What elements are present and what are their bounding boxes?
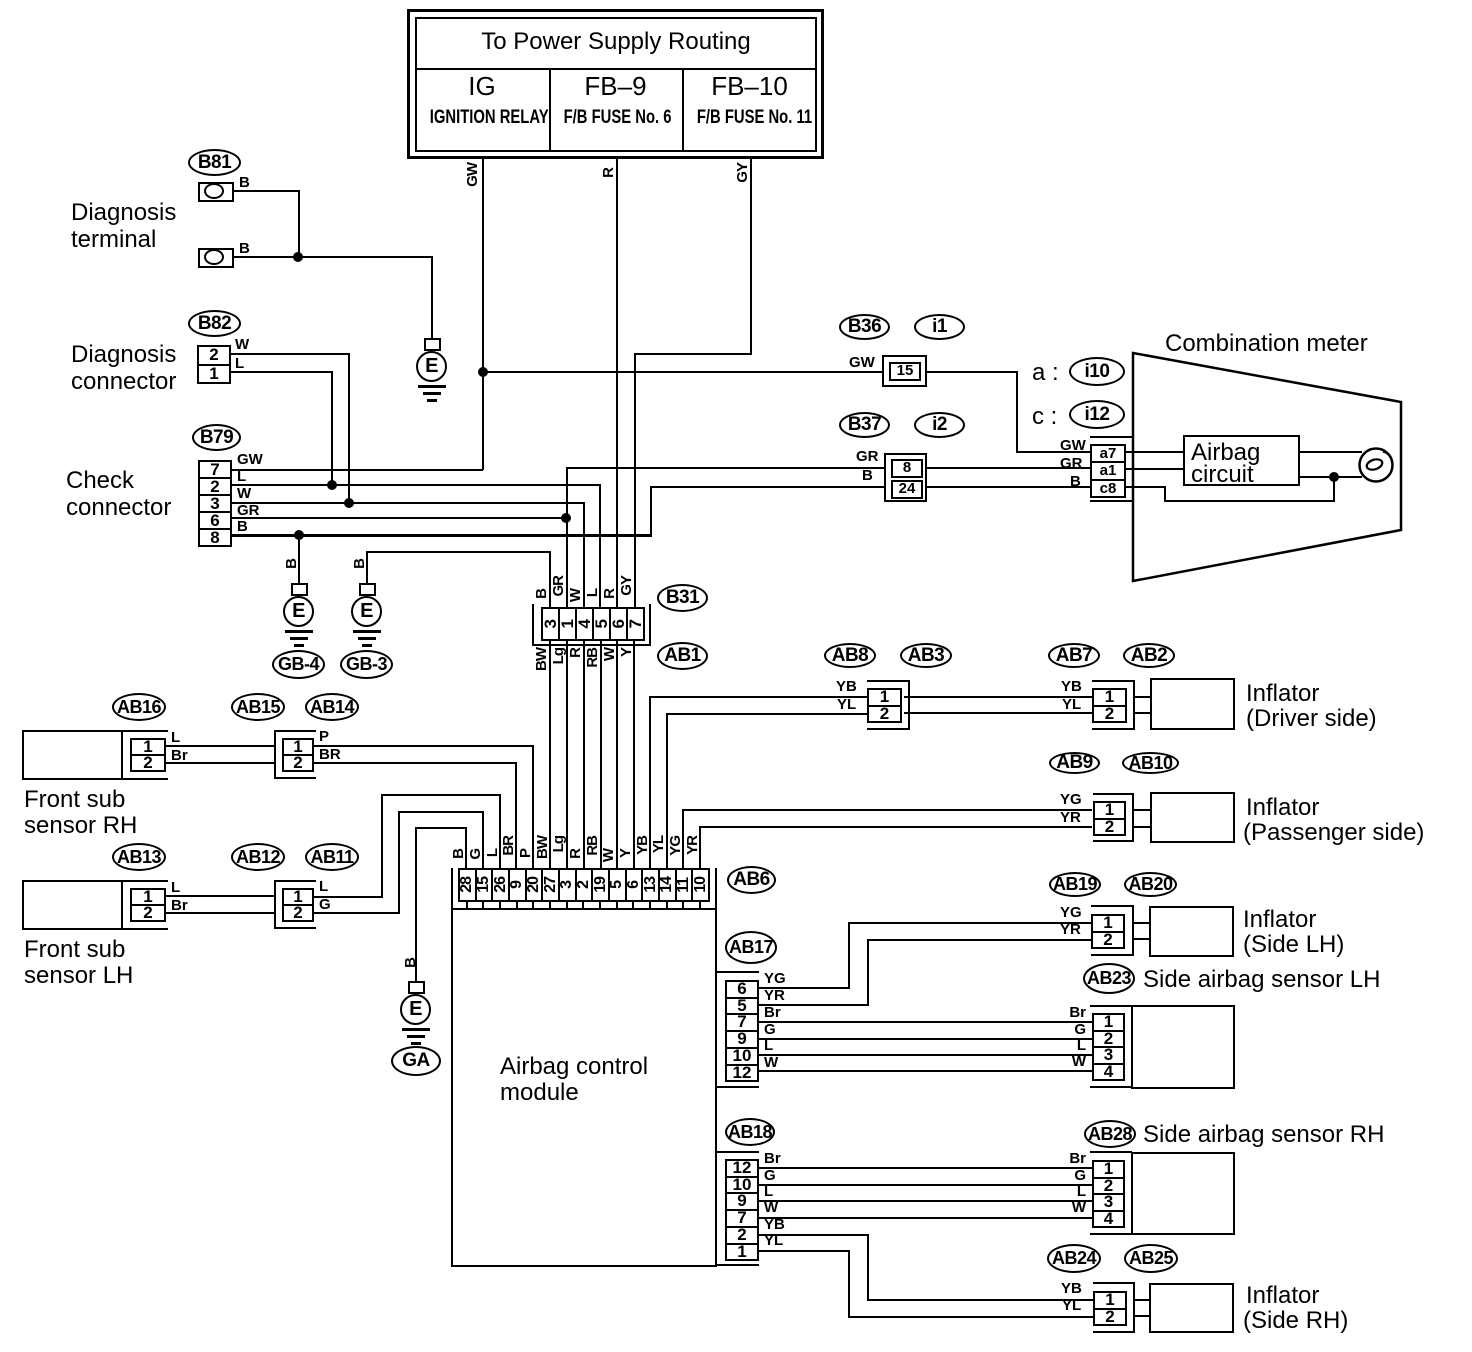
label W wire B82 (235, 337, 249, 353)
wire GW from IG down to check connector (482, 159, 484, 470)
connector AB19/AB20 bracket (1091, 905, 1134, 907)
ground E diagnosis (424, 338, 441, 351)
label Front sub sensor RH (24, 787, 125, 813)
connector AB6 oval (727, 866, 776, 894)
wire R from FB-9 down to B31 pin 6 (616, 159, 618, 607)
connector AB9/AB10 cells (1093, 801, 1126, 836)
label Check connector (66, 468, 134, 494)
wire AB9 pin2 to inflator (1134, 826, 1150, 828)
label G wire AB11 (319, 897, 331, 913)
wire YB module pin13 to AB8 (649, 697, 651, 868)
junction B wire to GB-4 (294, 530, 304, 540)
connector B37 pins 8/24 (884, 453, 927, 502)
label GY power wire (734, 163, 751, 183)
connector AB2 oval (1123, 643, 1175, 668)
label YB wire AB24 (1061, 1281, 1082, 1297)
junction L wires (327, 480, 337, 490)
wire L AB18-9 to AB28 (759, 1200, 1092, 1202)
label B wire GA (402, 958, 419, 968)
label GR wire B79 pin6 (237, 503, 260, 519)
junction GR wires (561, 513, 571, 523)
wire Br AB18-12 to AB28 (759, 1167, 1092, 1169)
label YL wire AB8 (837, 697, 856, 713)
inflator side RH box (1149, 1283, 1234, 1333)
connector AB28 oval (1084, 1120, 1136, 1148)
connector AB8 oval (824, 643, 876, 668)
connector a7/a1/c8 cells (1090, 444, 1126, 498)
label W wire AB28 (1062, 1200, 1086, 1216)
front sub sensor LH box (22, 880, 123, 930)
wire airbag circuit to lamp bottom with c8 return (1300, 476, 1362, 478)
wire a1 to airbag circuit (1126, 468, 1183, 470)
label B wire c8 (1070, 474, 1081, 490)
wire AB19 pin1 to inflator (1134, 922, 1149, 924)
label YR wire AB19 (1060, 922, 1081, 938)
label YB wire AB18-2 (764, 1217, 785, 1233)
label Front sub sensor LH (24, 937, 125, 963)
label YR wire AB17-5 (764, 988, 785, 1004)
label W wire AB17-12 (764, 1055, 778, 1071)
wire YG AB17-6 to AB19 (759, 987, 850, 989)
airbag circuit box (1183, 435, 1300, 486)
ground GB-4 (283, 559, 300, 569)
label L wire AB16 (171, 730, 180, 746)
ground GA oval (391, 1046, 441, 1076)
diagnosis terminal pin 2 (198, 248, 234, 268)
connector B31 oval (657, 584, 708, 612)
label L wire AB28 (1062, 1184, 1086, 1200)
wire AB13 pin2 to AB12 (166, 912, 276, 914)
label GW wire B79 pin7 (237, 452, 263, 468)
connector AB18 cells (725, 1159, 759, 1261)
inflator side LH box (1149, 906, 1234, 957)
wire YB AB18-2 to AB24 (759, 1234, 869, 1236)
wire AB7 pin2 to inflator (1135, 712, 1151, 714)
connector AB9/AB10 bracket (1093, 793, 1134, 795)
label Airbag control module (500, 1054, 648, 1080)
wire AB24 pin1 to inflator (1135, 1299, 1149, 1301)
label GW wire B36 (849, 355, 875, 371)
wire G module pin15 to AB11 (482, 811, 484, 868)
connector AB8/AB3 bracket (867, 680, 910, 682)
wire W check pin3 to B31 pin4 (232, 502, 584, 504)
label Br wire AB13 (171, 898, 188, 914)
label YL wire AB7 (1062, 697, 1081, 713)
wire AB16 pin1 to AB15 (166, 745, 276, 747)
combination meter trapezoid outline (1130, 350, 1406, 586)
label W wire AB18-7 (764, 1200, 778, 1216)
wire W AB18-7 to AB28 (759, 1217, 1092, 1219)
label Inflator Side RH (1246, 1283, 1319, 1309)
wire AB3 to AB7 YB (904, 696, 1092, 698)
connector AB18 oval (725, 1118, 775, 1146)
label B wire terminal2 (239, 241, 250, 257)
label YL wire AB18-1 (764, 1233, 783, 1249)
connector AB28 cells (1092, 1160, 1125, 1228)
AB6 pin ticks (466, 900, 468, 910)
connector AB25 oval (1124, 1244, 1178, 1273)
connector AB19/AB20 cells (1091, 914, 1125, 949)
connector AB13 oval (112, 843, 166, 871)
label a : i10 (1032, 360, 1059, 386)
label GW power wire (464, 163, 481, 187)
label Inflator Driver side (1246, 681, 1319, 707)
label L wire AB23 (1062, 1038, 1086, 1054)
diagnosis terminal pin 1 (198, 182, 234, 202)
lamp airbag warning (1355, 444, 1401, 488)
connector AB15 oval (231, 693, 285, 721)
label Diagnosis connector (71, 342, 176, 368)
connector B79 (198, 460, 232, 547)
connector B82 (197, 345, 231, 384)
junction W wires (344, 498, 354, 508)
connector AB17 bracket (717, 971, 759, 973)
connector AB17 cells (725, 980, 759, 1082)
wire G AB17-9 to AB23 (759, 1038, 1092, 1040)
ground GB-4 oval (272, 650, 325, 679)
label GR wire B37 (856, 449, 879, 465)
connector AB1 oval (657, 642, 708, 670)
wire GW check pin7 to power GW line (232, 469, 483, 471)
wire YR AB17-5 to AB19 (759, 1004, 869, 1006)
connector AB16 cells (130, 738, 166, 772)
wire AB13 pin1 to AB12 (166, 895, 276, 897)
wire B37-8 to meter a1 (927, 467, 1090, 469)
connector AB8/AB3 cells (867, 688, 902, 723)
wire W AB17-12 to AB23 (759, 1070, 1092, 1072)
label G wire AB17-9 (764, 1022, 776, 1038)
connector B36 oval (839, 314, 890, 340)
ground GB-3 (359, 583, 376, 596)
wire YL module pin14 to AB8 (666, 714, 668, 868)
label GR wire a1 (1060, 456, 1083, 472)
label Side airbag sensor RH (1143, 1122, 1384, 1148)
connector AB20 oval (1124, 872, 1177, 897)
connector AB14 oval (305, 693, 359, 721)
connector B79 oval (192, 424, 241, 451)
side airbag sensor RH box (1131, 1152, 1235, 1235)
wire P module pin20 to AB14 (532, 746, 534, 868)
connector AB7 oval (1048, 643, 1100, 668)
label c : i12 (1032, 404, 1057, 430)
wire GR check pin6 to B37 pin8 and B31 pin1 (232, 517, 567, 519)
wire GW junction to B36 (483, 371, 882, 373)
ground GB-3 wire to B31 pin3 (351, 559, 368, 569)
label Br wire AB28 (1062, 1151, 1086, 1167)
label R power wire (600, 168, 617, 178)
label L wire AB17-10 (764, 1038, 773, 1054)
connector AB17 oval (725, 931, 777, 964)
label L wire B79 pin2 (237, 469, 246, 485)
label W wire B79 pin3 (237, 486, 251, 502)
front sub sensor RH box (22, 730, 123, 780)
wire YG module pin11 to AB9 (682, 810, 684, 868)
label GW wire a7 (1060, 438, 1086, 454)
inflator passenger side box (1150, 792, 1235, 843)
label G wire AB23 (1062, 1022, 1086, 1038)
wire AB16 pin2 to AB15 (166, 762, 276, 764)
label Br wire AB17-7 (764, 1005, 781, 1021)
junction diagnosis terminal wires (293, 252, 303, 262)
label Inflator Passenger side (1246, 795, 1319, 821)
label Combination meter (1165, 331, 1368, 357)
label B wire B79 pin8 (237, 519, 248, 535)
connector i2 oval (914, 412, 965, 438)
ground GB-3 oval (340, 650, 393, 679)
connector i1 oval (914, 314, 965, 340)
connector AB15 bracket (274, 730, 316, 732)
wire BR module pin9 to AB14 (515, 763, 517, 868)
junction GW line to B36 (478, 367, 488, 377)
wire terminal2 to ground E (234, 256, 432, 258)
connector B36 pin 15 (882, 355, 927, 387)
label Br wire AB23 (1062, 1005, 1086, 1021)
connector AB16 oval (112, 693, 166, 721)
wire Br AB17-7 to AB23 (759, 1021, 1092, 1023)
wire B37-24 to meter c8 (927, 486, 1090, 488)
wire L from B82 pin1 to check connector L (231, 371, 333, 373)
labels B31 top wires (533, 589, 550, 599)
label G wire AB18-10 (764, 1168, 776, 1184)
wires B31 to airbag control module connector (549, 641, 551, 868)
label B wire B37 (862, 468, 873, 484)
connector AB15/AB14 cells (282, 738, 314, 772)
connector AB23 cells (1092, 1013, 1125, 1081)
wire B check pin8 to ground GB-4 and B37 pin24 (232, 534, 652, 537)
label BR wire AB14 (319, 747, 341, 763)
ground GA (408, 981, 425, 994)
labels AB1 bottom wires (533, 648, 550, 671)
connector B81 oval (188, 149, 241, 176)
connector B31/AB1 cells (541, 607, 645, 641)
connector i10 oval (1069, 357, 1125, 386)
label G wire AB28 (1062, 1168, 1086, 1184)
label B wire terminal1 (239, 175, 250, 191)
label W wire AB23 (1062, 1054, 1086, 1070)
connector AB24/AB25 bracket (1093, 1282, 1135, 1284)
label Diagnosis terminal (71, 200, 176, 226)
wire G AB18-10 to AB28 (759, 1184, 1092, 1186)
label L wire AB11 (319, 879, 328, 895)
connector B31/AB1 bracket (532, 604, 534, 646)
wire W from B82 pin2 to check connector W (231, 353, 350, 355)
wire airbag circuit to lamp top (1300, 451, 1362, 453)
label Br wire AB16 (171, 748, 188, 764)
connector AB12/AB11 cells (282, 888, 314, 922)
connector AB23 oval (1083, 963, 1135, 994)
connector AB13 cells (130, 888, 166, 922)
inflator driver side box (1150, 678, 1235, 730)
wire AB24 pin2 to inflator (1135, 1315, 1149, 1317)
connector AB6 cells (458, 868, 710, 902)
labels AB6 wires (450, 849, 467, 859)
wire AB9 pin1 to inflator (1134, 809, 1150, 811)
power supply routing box (407, 9, 824, 159)
wire L check pin2 to B31 pin5 (232, 484, 600, 486)
wire YL AB18-1 to AB24 (759, 1250, 850, 1252)
connector AB23 bracket (1090, 1005, 1132, 1007)
connector AB24 oval (1047, 1244, 1101, 1273)
connector AB10 oval (1122, 752, 1179, 774)
connector AB12 oval (231, 843, 285, 871)
airbag control module box (451, 908, 717, 1267)
label Side airbag sensor LH (1143, 967, 1380, 993)
connector B37 oval (839, 412, 890, 438)
connector AB12 bracket (274, 880, 316, 882)
wire AB3 to AB7 YL (904, 712, 1092, 714)
wire AB19 pin2 to inflator (1134, 938, 1149, 940)
label YG wire AB9 (1060, 792, 1082, 808)
connector AB7/AB2 bracket (1092, 680, 1135, 682)
label L wire AB13 (171, 880, 180, 896)
junction lamp return (1329, 472, 1339, 482)
connector AB3 oval (900, 643, 952, 668)
wire YR module pin10 to AB9 (699, 827, 701, 868)
connector AB9 oval (1049, 752, 1100, 774)
wire L AB17-10 to AB23 (759, 1054, 1092, 1056)
label YG wire AB17-6 (764, 971, 786, 987)
wire B module pin28 to ground GA (465, 827, 467, 868)
wire GY from FB-10 down to B31 pin 7 (750, 159, 752, 355)
connector i12 oval (1069, 400, 1125, 429)
label YB wire AB7 (1061, 679, 1082, 695)
label YL wire AB24 (1062, 1298, 1081, 1314)
wire AB7 pin1 to inflator (1135, 696, 1151, 698)
connector AB28 bracket (1090, 1151, 1132, 1153)
label YR wire AB9 (1060, 810, 1081, 826)
label YG wire AB19 (1060, 905, 1082, 921)
wire L module pin26 to AB12 (499, 794, 501, 868)
connector AB19 oval (1049, 872, 1101, 897)
wire B36 to meter a7 (927, 371, 1017, 373)
label L wire B82 (235, 356, 244, 372)
connector AB11 oval (305, 843, 359, 871)
label Inflator Side LH (1243, 907, 1316, 933)
connector AB24/AB25 cells (1093, 1291, 1127, 1326)
wire a7 to airbag circuit (1126, 451, 1183, 453)
connector AB18 bracket (717, 1151, 759, 1153)
connector B82 oval (188, 310, 241, 337)
label L wire AB18-9 (764, 1184, 773, 1200)
label Br wire AB18-12 (764, 1151, 781, 1167)
connector i10/i12 a7 a1 c8 (1090, 436, 1133, 438)
wire terminal1 to junction (234, 190, 300, 192)
side airbag sensor LH box (1131, 1005, 1235, 1089)
connector AB7/AB2 cells (1092, 688, 1127, 723)
label YB wire AB8 (836, 679, 857, 695)
label P wire AB14 (319, 729, 329, 745)
